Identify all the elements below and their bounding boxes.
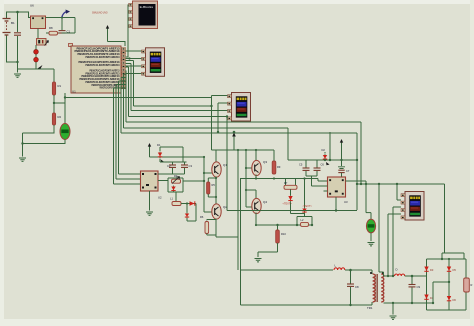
capacitor C10 <box>409 276 421 303</box>
resistor R4 horizontal <box>170 197 181 206</box>
transistor Q4 <box>252 198 268 213</box>
resistor R12 <box>301 218 309 226</box>
wire scope2 pin B drop <box>217 103 228 133</box>
wire MCU to scope1 ch C <box>126 65 142 67</box>
wire scope3 ch B <box>392 207 401 277</box>
wire y132 drop <box>329 132 331 161</box>
capacitor C6 <box>314 160 325 176</box>
power flag +5V MCU <box>106 25 125 46</box>
svg-text:D3: D3 <box>430 268 434 272</box>
wire regulator ground stem <box>37 29 39 39</box>
wire U4 right pin to loop <box>346 181 368 213</box>
LED D1 <box>34 50 39 55</box>
wire bus v3 to y116.5 <box>126 67 228 117</box>
node R1-R2 junction <box>53 95 65 113</box>
resistor R2 <box>52 113 61 125</box>
diode D10 <box>447 266 457 274</box>
power flag +5V 555 <box>148 143 204 157</box>
wire box bottom to R4 <box>172 192 176 204</box>
wire scope2 pin A drop <box>210 96 227 151</box>
wire bus v8 to 555 pin2 <box>116 85 141 180</box>
wire main loop y184 <box>357 183 445 185</box>
battery B1 <box>3 19 16 36</box>
wire Q3 emitter rail <box>241 175 328 182</box>
wire bus v7 to 555 pin1 <box>119 81 141 174</box>
wire secondary top <box>384 275 395 277</box>
svg-text:B1: B1 <box>11 21 15 25</box>
wire bridge frame <box>427 184 467 310</box>
transistor Q3 <box>252 160 268 176</box>
resistor R1 <box>52 69 61 95</box>
fuse-resistor R8 horizontal <box>49 26 58 35</box>
resistor R10 <box>258 224 286 257</box>
wire scope3 ch C <box>387 214 401 277</box>
capacitor C2 <box>167 162 176 174</box>
svg-text:<TEXT>: <TEXT> <box>283 203 293 206</box>
wire cap top rail <box>160 147 187 162</box>
wire MCU to scope1 ch B <box>126 57 142 59</box>
wire Q1 emitter to Q2 <box>215 177 217 207</box>
diode D8 <box>424 266 434 274</box>
svg-text:C2: C2 <box>167 164 171 168</box>
svg-text:C5: C5 <box>299 163 303 167</box>
svg-text:Q4: Q4 <box>263 200 267 204</box>
net label SIMULINO (red) <box>92 10 108 14</box>
wire 555 pin right top <box>158 173 185 175</box>
svg-text:D2: D2 <box>322 148 326 152</box>
wire bus v5 line y128 <box>124 74 289 128</box>
resistor R5 <box>207 177 217 198</box>
power flag +12V <box>340 139 343 161</box>
diode D14 horizontal <box>181 201 196 205</box>
svg-text:D1: D1 <box>157 143 161 147</box>
svg-text:D6: D6 <box>453 298 457 302</box>
wire bus v2 to y110.5 <box>126 64 228 111</box>
wire left ground rail <box>18 62 55 73</box>
svg-text:R8: R8 <box>49 26 53 30</box>
wire terminal bus <box>126 5 129 58</box>
svg-text:R3: R3 <box>174 174 178 178</box>
ground (output) <box>390 316 397 319</box>
svg-text:C9: C9 <box>417 285 421 289</box>
capacitor C8 with ground <box>338 160 350 177</box>
wire long vertical A <box>237 149 239 270</box>
wire MCU bottom rail <box>64 93 212 99</box>
wire Q3 base rail <box>245 149 252 207</box>
wire Q1 base stub <box>203 172 213 174</box>
svg-text:R6: R6 <box>200 215 204 219</box>
ground (left chain) <box>19 158 26 161</box>
voltage probe (blue arrow) <box>62 10 70 18</box>
wire battery top rail <box>7 11 31 18</box>
fuse FU1 <box>366 213 376 241</box>
resistor R9 <box>272 150 281 174</box>
oscilloscope SCOPE2 <box>228 93 251 122</box>
capacitor C3 <box>181 162 192 174</box>
wire LED chain <box>35 45 37 69</box>
wire Q2 base stub <box>204 211 213 213</box>
inductor L4 secondary <box>395 268 427 278</box>
inductor L3 <box>241 264 373 272</box>
wire U4 rail to loop <box>356 133 358 210</box>
wire U4 left pins <box>324 186 328 191</box>
MCU right pin number boxes <box>122 48 126 89</box>
ground (555) <box>146 212 153 215</box>
wire Q4 base stub <box>246 206 252 208</box>
capacitor C1 <box>59 18 76 34</box>
LED D2 <box>34 57 39 62</box>
diode D7 <box>322 148 330 165</box>
svg-text:<TEXT>: <TEXT> <box>303 205 313 208</box>
wiper arrow (black) <box>38 65 43 69</box>
ground (fuse) <box>368 243 375 246</box>
virtual terminal VT1 <box>129 1 158 29</box>
wire ground stem output <box>392 303 394 315</box>
oscilloscope SCOPE3 <box>401 192 424 221</box>
wire bus v1 to y106 <box>126 61 212 107</box>
svg-text:TR1: TR1 <box>367 306 373 310</box>
svg-text:R5: R5 <box>212 183 216 187</box>
wire 555 ground <box>149 191 151 211</box>
snubber diode D13 <box>302 179 312 214</box>
wire U4 bottom <box>226 115 357 211</box>
wire secondary bottom <box>384 302 434 304</box>
svg-text:Q3: Q3 <box>263 160 267 164</box>
wire long vertical B <box>240 178 242 305</box>
wire regulator output rail <box>46 16 76 33</box>
wire Q2 emitter chain <box>216 219 238 238</box>
capacitor C9 <box>347 270 359 305</box>
svg-text:PB0/ICP1/CLKO/PCINT0 AREF13: PB0/ICP1/CLKO/PCINT0 AREF13 <box>86 63 120 67</box>
svg-text:R10: R10 <box>281 232 286 236</box>
svg-text:U6: U6 <box>30 3 34 7</box>
svg-text:R9: R9 <box>277 165 281 169</box>
wire Q4 emitter rail <box>255 213 312 227</box>
svg-text:D: D <box>396 268 398 272</box>
svg-text:E-Blocks: E-Blocks <box>140 5 154 9</box>
ground (input stage) <box>14 74 21 77</box>
wire box to Q1 base <box>183 156 205 212</box>
sounder LS1 (green oval) <box>23 98 71 144</box>
ground (output stage) <box>255 259 262 262</box>
wire bus v6 long line y133 <box>121 78 357 134</box>
pot box wires <box>168 178 183 192</box>
svg-text:R7: R7 <box>284 181 288 185</box>
svg-text:C1: C1 <box>67 30 71 34</box>
node ground-left junction <box>16 61 18 63</box>
oscilloscope SCOPE1 <box>142 48 165 77</box>
svg-text:R2: R2 <box>58 115 62 119</box>
regulator U4 <box>328 177 349 204</box>
wire 555 out to pot box <box>158 180 168 182</box>
diode D3 with flag <box>157 143 183 163</box>
wire MCU to scope1 ch A <box>126 50 142 52</box>
diode D9 <box>424 294 434 302</box>
wire MCU to scope1 ch D <box>126 73 142 75</box>
wire bus v4 long line y122 <box>126 71 362 123</box>
capacitor C7 input <box>14 12 21 69</box>
load resistor R13 <box>464 278 473 292</box>
preset RV2 <box>172 174 181 184</box>
svg-text:R: R <box>471 283 473 287</box>
transformer TR1 <box>367 270 384 310</box>
wire secondary feed <box>378 183 384 276</box>
timer U3 555 <box>141 171 163 200</box>
wire bus v9 to 555 pin3 <box>114 88 141 184</box>
svg-text:U3: U3 <box>344 200 348 204</box>
svg-text:C8: C8 <box>355 285 359 289</box>
wire caps bottom <box>306 176 324 186</box>
wire driver collector rail <box>212 150 247 164</box>
resistor R6 <box>200 215 216 235</box>
svg-text:C6: C6 <box>321 163 325 167</box>
diode D11 <box>447 295 457 303</box>
svg-text:U2: U2 <box>158 196 162 200</box>
diode D4 <box>171 186 175 193</box>
power tap arrow under scope2 <box>232 131 236 150</box>
wire bridge mid tap <box>432 281 450 304</box>
diode D12 discharge <box>283 189 305 213</box>
wire Q3 collector <box>246 149 274 162</box>
wire scope3 ch A <box>396 183 401 200</box>
svg-text:R1: R1 <box>58 84 62 88</box>
wire cap rail y160 <box>288 159 357 161</box>
microcontroller U2 ATMEGA328P <box>69 44 122 94</box>
wire Q4 collector <box>245 189 256 200</box>
resistor R7 hanging loop <box>284 128 297 189</box>
svg-text:SIMULINO UNO: SIMULINO UNO <box>92 10 108 14</box>
svg-text:U1: U1 <box>72 90 76 94</box>
regulator U1 7805 <box>30 3 46 28</box>
snubber loop <box>296 213 313 226</box>
transistor Q1 <box>212 162 228 177</box>
wire bottom rail <box>241 304 373 306</box>
diode D5 loop <box>185 202 196 221</box>
trimmer RV1 <box>37 39 49 46</box>
transistor Q2 <box>212 204 228 219</box>
svg-text:PB0/ICP1/CLKO/PCINT0 AREF13: PB0/ICP1/CLKO/PCINT0 AREF13 <box>86 55 120 59</box>
svg-text:D5: D5 <box>453 268 457 272</box>
node ground-chain junction <box>21 142 23 144</box>
wire battery negative to ground rail <box>7 36 18 63</box>
capacitor C5 <box>299 160 310 176</box>
wire R2 bottom to ground <box>23 125 55 157</box>
wire y122 drop / fuse feed <box>360 122 362 184</box>
svg-text:C7: C7 <box>346 169 350 173</box>
svg-text:C3: C3 <box>189 164 193 168</box>
